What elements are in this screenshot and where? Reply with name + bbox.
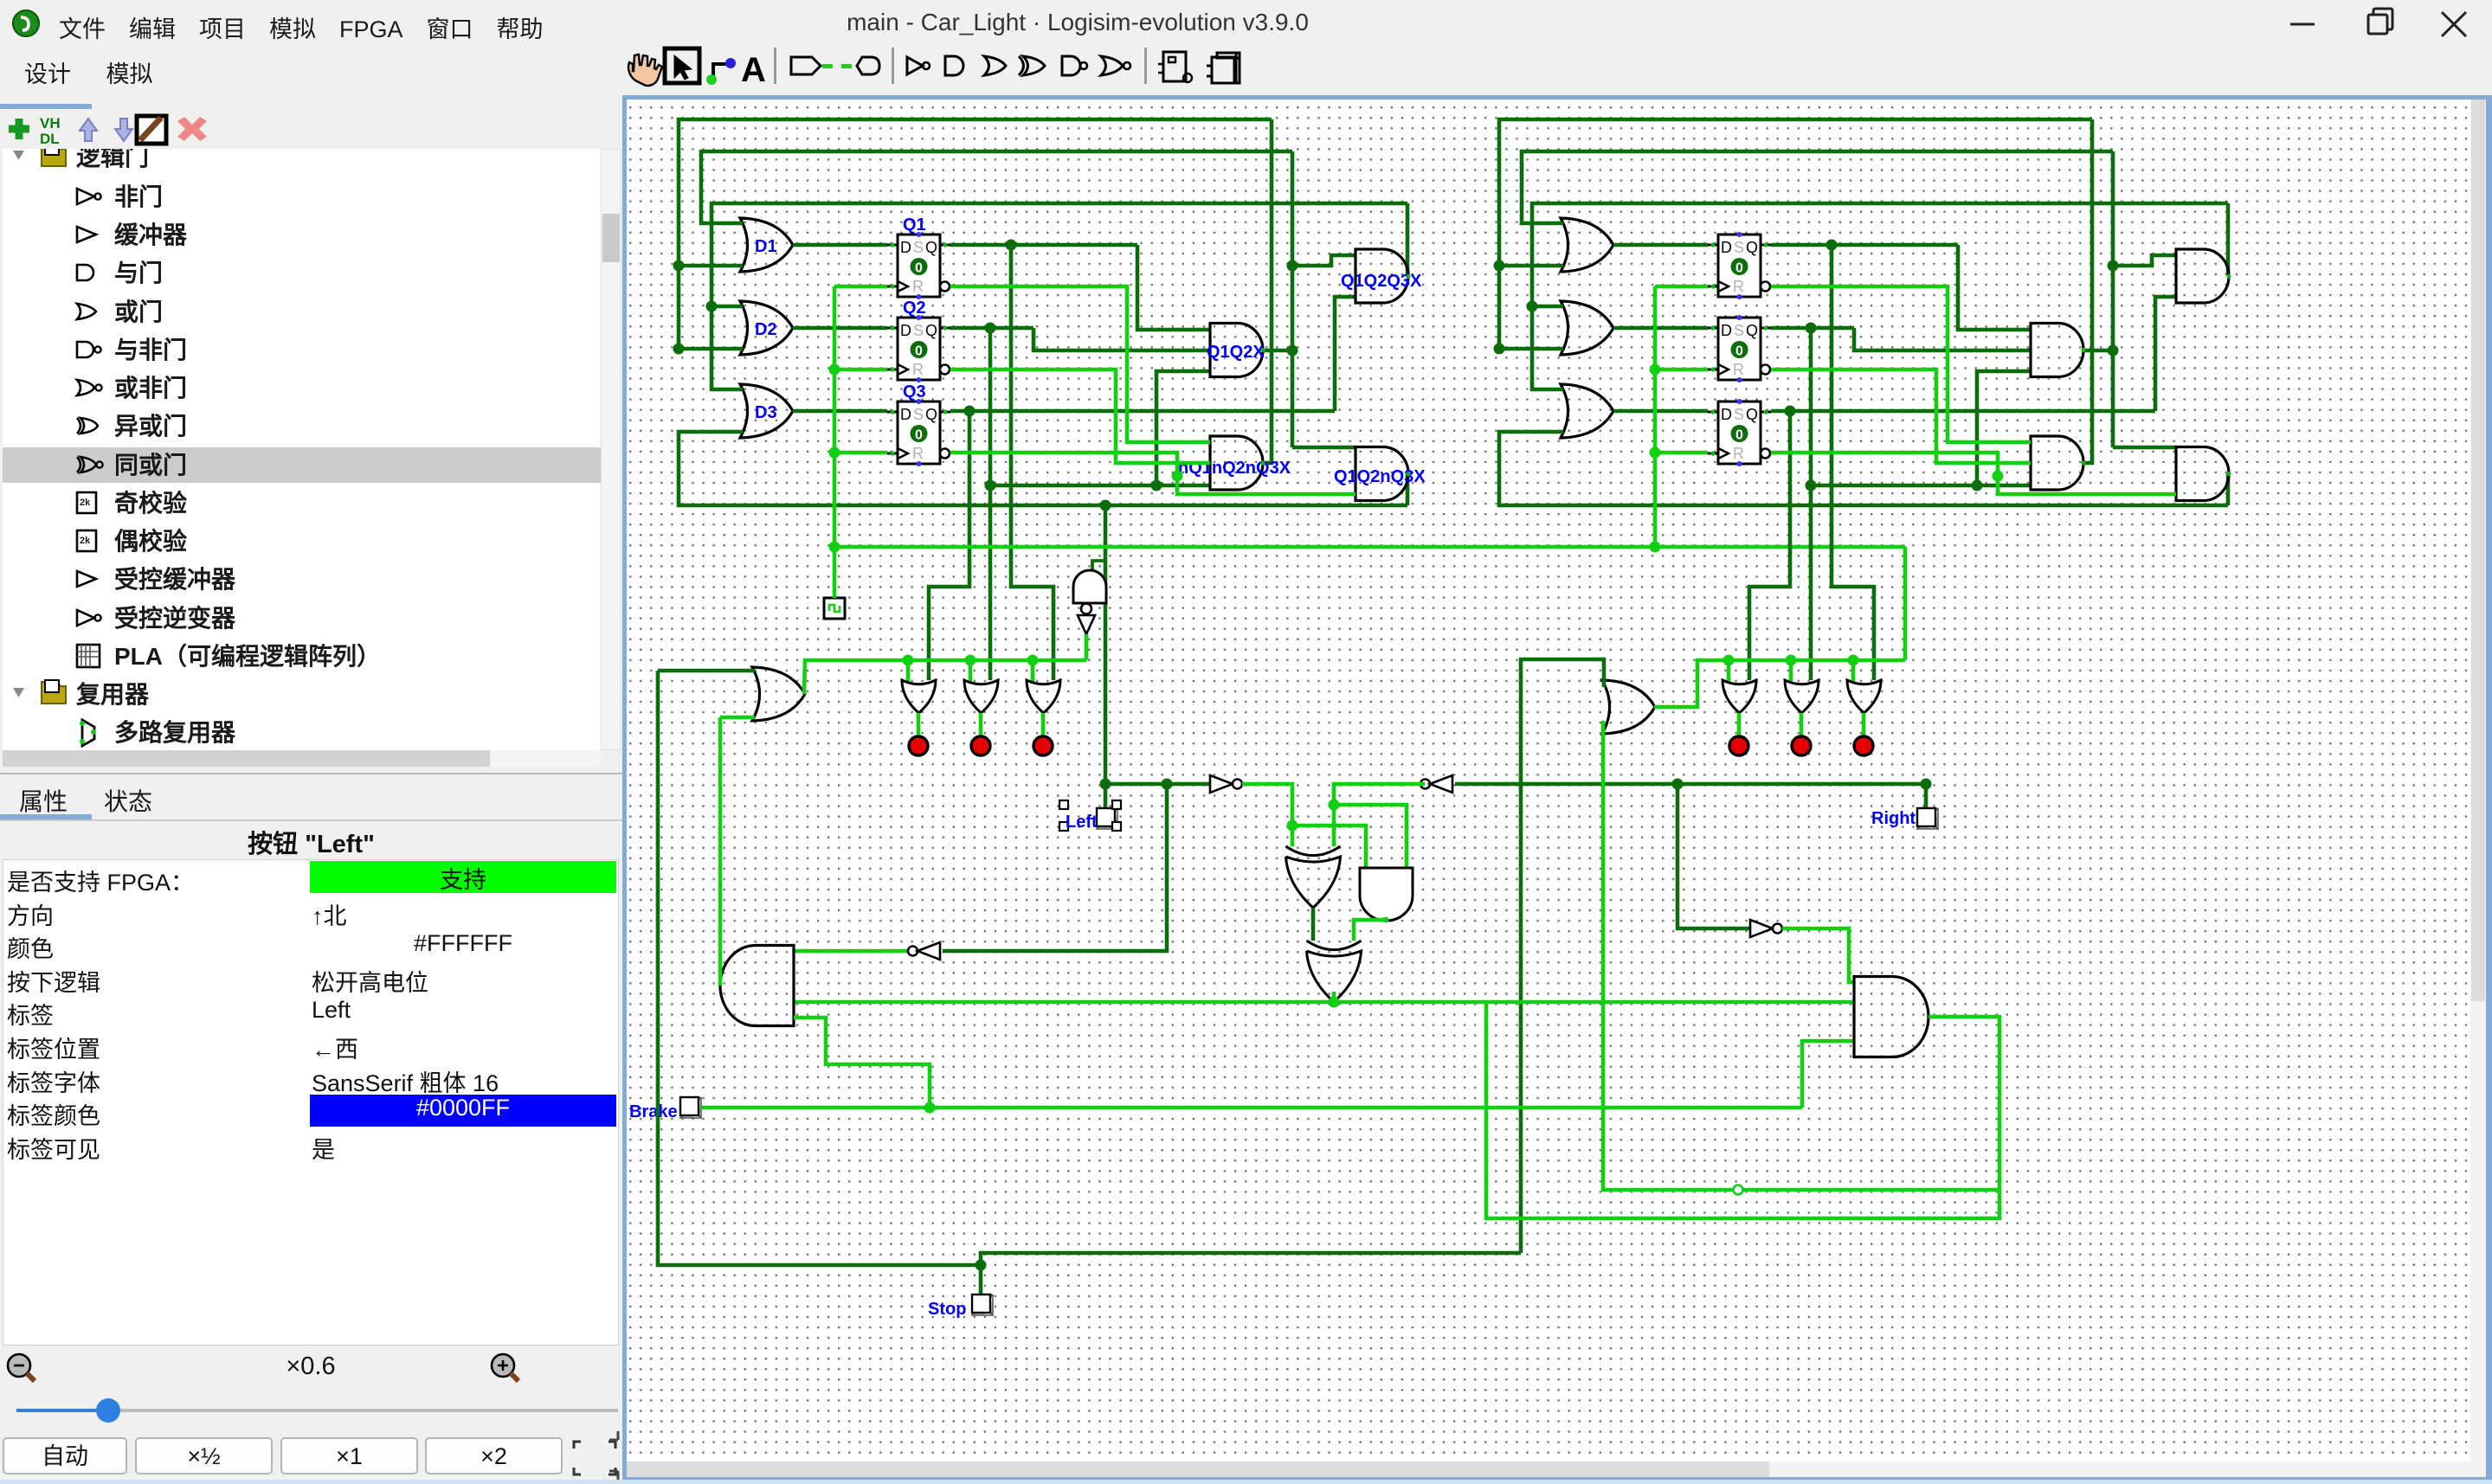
wire Brake to ANDR [1802,1041,1854,1108]
svg-text:Q1Q2X: Q1Q2X [1207,343,1265,362]
node net138 D2 tap [673,344,685,355]
wire clk Q1 [834,285,887,289]
inverter NOT2 [1420,780,1430,789]
wire G4 out down [1406,473,1410,505]
sep [774,48,776,84]
svg-text:2k: 2k [80,498,91,508]
wire NOT4 input [943,786,1167,951]
canvas scrollbars [2470,100,2486,1462]
appearance icon [1207,53,1240,83]
down AND gate [1360,868,1413,921]
wire R2 row to gates [1811,484,2031,488]
wire R2.Q out [1771,326,1854,331]
wire RightNOT feed [1677,784,1750,928]
wire nR3 [1771,453,2176,494]
svg-text:VH: VH [40,115,61,132]
node nQ3 junction [1172,471,1183,482]
title bar [0,0,2492,45]
LED or gate L2 [964,680,998,713]
sep [1144,48,1147,84]
node Left junction2 [1162,779,1173,790]
node R1 out junction [1826,240,1838,251]
svg-text:Q1Q2nQ3X: Q1Q2nQ3X [1334,467,1426,486]
wire NOT1 out [1242,784,1292,826]
node clk q2 [829,364,840,376]
wire nR1 [1771,286,2031,442]
wire R1 to G2R.in1 [1958,245,2031,330]
svg-text:D: D [900,239,911,256]
svg-text:Q: Q [925,406,937,423]
subcircuit icon [1163,52,1186,81]
wire R1 down to LED [1832,245,1874,680]
svg-text:S: S [1734,239,1744,256]
svg-text:Q: Q [1746,239,1758,256]
node net138 D1 tap [673,260,685,272]
wire ledR stub3 [1862,713,1866,737]
wire R1.Q out [1771,243,1958,247]
wire brakeAND in3 jog [794,1018,930,1108]
svg-text:S: S [913,239,924,256]
wire to G2R.in2 [1977,371,2031,485]
LED or gate L3 [1027,680,1060,713]
wire Q2.Q out [950,326,1034,331]
node shield2 jn [1329,997,1340,1008]
node net235R D2 tap [1527,301,1538,312]
node R3 out junction [1785,406,1796,417]
node rail3 [1027,655,1039,666]
wire G3 out up [1262,119,1272,463]
wire NOT2 out [1334,784,1425,805]
clock source [824,598,845,619]
tree h scrollbar [3,750,601,767]
wire jog to G1R.in1 [2113,255,2176,266]
svg-text:S: S [1734,406,1744,423]
wire feedback net235R [1532,203,2228,389]
wire G2 out net [1291,151,1295,447]
wire jog to G1.in1 [1292,255,1355,266]
wire railR stub3 [1851,660,1856,682]
node clk q3 [829,447,840,459]
property table [3,859,619,1346]
svg-text:Q: Q [1746,406,1758,423]
node net584 tap [1100,500,1111,511]
svg-text:×0.6: ×0.6 [286,1352,335,1380]
node clkR r2 [1650,364,1661,376]
wire R3 to G1R.in2 [2155,297,2176,411]
svg-text:偶校验: 偶校验 [114,527,187,555]
wire Q2 down to LED2 [988,328,993,680]
flip-flop Q2 [898,318,940,380]
LED or gate L1 [902,680,936,713]
svg-text:0: 0 [1735,344,1743,359]
wire stop net left [658,671,981,1265]
node Q2 out junction [985,323,996,334]
svg-text:同或门: 同或门 [114,452,187,479]
wire ledR stub2 [1800,713,1804,737]
wire led stub2 [979,713,983,737]
svg-text:Stop: Stop [928,1300,966,1319]
wire D3R to R3.D [1613,409,1708,414]
node net138R D1 tap [1494,260,1505,272]
OR L body [752,667,805,721]
flip-flop Q3 [898,402,940,464]
wire clk Q2 [834,368,887,372]
node G1 in tap [1287,260,1298,272]
input pin [791,57,821,74]
svg-text:A: A [741,51,766,88]
wire Q1 to G2.in1 [1137,245,1210,330]
node stop junction [976,1260,987,1271]
G4R body [2176,447,2229,501]
wire brakeAND out up [718,717,723,986]
wire Q2 row to gates [990,484,1210,488]
wire Q3 to G1.in2 [1335,297,1355,411]
OR R body [1602,680,1655,734]
wire net138 to D2.in2 [679,347,743,351]
flip-flop R1 [1718,234,1761,297]
svg-text:Q2: Q2 [903,299,926,318]
pin dots on gate tips [1406,274,1410,279]
svg-text:PLA（可编程逻辑阵列）: PLA（可编程逻辑阵列） [114,642,381,670]
svg-text:2k: 2k [80,536,91,546]
wire nQ2 [950,369,1210,463]
wire Q1 down to LED3 [1011,245,1053,680]
inverter NOT4 [908,947,918,956]
node mid2 [1329,800,1340,811]
window buttons [2268,0,2492,48]
svg-text:0: 0 [915,344,923,359]
wire Right button stub [1924,784,1929,807]
G1 body [1355,249,1408,303]
wire rail stub1 [906,660,911,682]
wire railR stub1 [1727,660,1731,682]
svg-text:D2: D2 [755,320,777,339]
wire stop to ORL.in1 [658,669,755,673]
svg-text:R: R [912,361,924,378]
tree [3,149,601,750]
explorer toolbar [0,109,622,149]
wire D2R to R2.D [1613,326,1708,331]
tree v scrollbar [601,149,621,750]
XOR [1023,56,1045,75]
svg-text:D: D [1721,406,1732,423]
wire to G4R.in1 [2113,446,2176,450]
svg-text:D: D [1721,322,1732,339]
node rail2 [965,655,976,666]
svg-text:Q1: Q1 [903,215,926,234]
svg-text:Right: Right [1871,809,1916,828]
wire feedback net175R [1522,151,2113,223]
wire led stub1 [917,713,921,737]
LED R2 [1792,736,1811,755]
sep [892,48,894,84]
wire brakeAND in1 [794,949,908,954]
svg-text:0: 0 [1735,261,1743,276]
svg-text:多路复用器: 多路复用器 [114,719,236,746]
wire net138R to D2R.in2 [1499,347,1563,351]
flip-flop Q1 [898,234,940,297]
LED or gate R1 [1723,680,1756,713]
wire Stop button stub [979,1265,983,1294]
wire shield1 out [1311,908,1316,941]
wire G3R out up [2083,119,2092,463]
G2R body [2031,324,2083,377]
wire clkR R2 [1655,368,1708,372]
node Q2 row junction [1151,480,1162,491]
node mid1 [1287,820,1298,832]
wire Right row [1455,782,1926,787]
button Right [1917,808,1938,829]
wire feedback net138R [1499,119,2092,349]
AND [945,56,963,75]
wire mid2 to downAND [1334,805,1407,868]
node R2 row junction [1972,480,1983,491]
node Q3 out junction [964,406,976,417]
wire ORR.in2 net [1603,721,1999,1190]
wire Left button stub [1104,784,1108,807]
XOR shield2 [1307,951,1362,1002]
or D1 body [740,218,793,272]
brake AND left [720,946,794,1026]
node G2 out junction [1287,345,1298,357]
selection handles Left button [1059,800,1068,809]
node clk right [1650,542,1661,553]
wire shield2 out [1332,992,1336,1002]
node Left junction [1100,779,1111,790]
svg-text:Q: Q [1746,322,1758,339]
wire NOT3 out [1782,928,1854,982]
node railR1 [1723,655,1735,666]
wire G2R out stub [2083,349,2113,353]
node Right jn2 [1921,779,1932,790]
wire rail drop [1903,547,1908,660]
toolbar row [0,45,2492,95]
long enable line [794,1000,1854,1005]
svg-text:D1: D1 [755,237,777,256]
wire nR2 [1771,369,2031,463]
svg-text:受控缓冲器: 受控缓冲器 [114,566,236,593]
node rail1 [903,655,914,666]
or D3R [1561,384,1613,438]
wire G2 out stub [1263,349,1292,353]
node R2 out junction [1806,323,1817,334]
wire feedback net235 [712,203,1407,389]
node R2 tap [1806,480,1817,491]
wire Q2 jog [1034,328,1210,350]
wire Left row [1105,782,1210,787]
wire net138R to D1R.in2 [1499,264,1563,268]
wire feedback net138 [679,119,1272,349]
button Left [1097,808,1117,829]
zoom controls [0,1346,622,1390]
LED L1 [909,736,928,755]
LED L3 [1034,736,1053,755]
LED or gate R2 [1785,680,1819,713]
node G2R out junction [2108,345,2119,357]
svg-text:DL: DL [40,131,60,147]
wire Q1.Q out [950,243,1137,247]
svg-text:R: R [912,278,924,295]
node nR3 junction [1993,471,2004,482]
svg-text:异或门: 异或门 [114,413,187,440]
NOR [1101,56,1123,75]
button Brake [680,1097,701,1118]
wire ledR stub1 [1737,713,1742,737]
svg-text:Q: Q [925,239,937,256]
or D2 body [740,301,793,355]
svg-text:R: R [1733,445,1744,462]
wire NOT to rail [1085,634,1089,660]
wire G4R out down [2226,473,2231,505]
wire ORL.in2 [720,716,755,720]
wire to G2.in2 [1156,371,1210,485]
G3 body [1210,436,1263,490]
wire R2 down to LED [1809,328,1813,680]
wire net138 to D1.in2 [679,264,743,268]
svg-text:0: 0 [915,261,923,276]
LED L2 [971,736,990,755]
svg-text:与非门: 与非门 [114,337,187,363]
wire to NAND column [1104,505,1108,784]
NAND [1062,56,1080,75]
wire clock rail vertical [833,286,837,598]
svg-text:S: S [913,322,924,339]
NOT [907,57,923,74]
node Right jn [1672,779,1684,790]
G1R body [2176,249,2229,303]
node clk rail [829,542,840,553]
resize grip marks [606,1428,623,1484]
wire ANDR out loop [1486,1002,1999,1218]
node Q1 out junction [1006,240,1017,251]
svg-text:Left: Left [1066,813,1098,832]
wire G2R out net [2111,151,2115,447]
wire clkR R1 [1655,285,1708,289]
svg-text:非门: 非门 [114,183,163,210]
wire Q3 down to LED1 [929,411,969,680]
wire railR stub2 [1789,660,1793,682]
logisim logo [12,10,40,37]
svg-text:R: R [1733,361,1744,378]
wire D2 to Q2.D [793,326,887,331]
button Stop [972,1294,993,1315]
wire clock rail y632 [834,545,1905,549]
node Q2 tap [985,480,996,491]
wire ORL out to LED rail [804,660,1086,694]
node Brake jn [924,1102,936,1114]
pin circle [1734,1185,1743,1195]
wire to G4.in1 [1292,446,1355,450]
wire rail stub3 [1031,660,1035,682]
svg-text:逻辑门: 逻辑门 [76,149,149,170]
wire net235 to D2.in1 [712,305,743,309]
G3R body [2031,436,2083,490]
wire nQ1 [950,286,1210,442]
LED R3 [1854,736,1873,755]
LED R1 [1729,736,1748,755]
OR [984,56,1006,75]
svg-text:Q1Q2Q3X: Q1Q2Q3X [1341,272,1422,291]
svg-text:S: S [1734,322,1744,339]
wire stop to ORR.in1 [1521,659,1604,1253]
node railR3 [1848,655,1859,666]
wire mid to downAND [1292,826,1366,868]
svg-text:D: D [900,322,911,339]
svg-text:Brake: Brake [629,1102,678,1121]
wire ORR out to rail [1654,660,1905,707]
wire D3 to Q3.D [793,409,887,414]
wire NAND jog [1092,561,1105,572]
svg-text:或门: 或门 [114,299,163,325]
svg-text:0: 0 [1735,428,1743,443]
wire tool [713,64,729,80]
wire R2 jog [1854,328,2031,350]
bottom window strip [622,1477,2492,1484]
wire D1R to R1.D [1613,243,1708,247]
wire feedback net175 [701,151,1292,223]
NAND blink gate [1073,570,1106,603]
wire clk Q3 [834,451,887,455]
svg-text:Q3: Q3 [903,382,926,402]
svg-text:复用器: 复用器 [76,681,150,708]
svg-text:受控逆变器: 受控逆变器 [114,604,236,632]
wire feedback net584 [679,432,1407,505]
wire R3.Q out [1771,409,2155,414]
wire nQ3 [950,453,1355,494]
or D1R [1561,218,1613,272]
wire downAND out [1354,920,1386,941]
wire mid to shield1 [1291,826,1295,846]
node net138R D2 tap [1494,344,1505,355]
wire feedback net584R [1499,432,2228,505]
flip-flop R3 [1718,402,1761,464]
wire Q3.Q out [950,409,1335,414]
svg-text:0: 0 [915,428,923,443]
svg-text:R: R [912,445,924,462]
hand tool [628,55,662,86]
node clkR r3 [1650,447,1661,459]
node net235 D2 tap [706,301,718,312]
svg-text:D: D [1721,239,1732,256]
AND gate right brake [1854,977,1929,1057]
wire G1 out up [1406,203,1410,275]
svg-text:S: S [913,406,924,423]
wire rail stub2 [969,660,973,682]
svg-text:Q: Q [925,322,937,339]
or D2R [1561,301,1613,355]
inverter NOT1 [1210,775,1233,793]
wire mid2 to shield1 [1332,805,1336,846]
svg-text:R: R [1733,278,1744,295]
LED or gate R3 [1847,680,1881,713]
wire Brake line [701,1106,1802,1110]
wire led stub3 [1041,713,1046,737]
wire net235R to D2R.in1 [1532,305,1563,309]
NOT under NAND [1078,615,1095,634]
select arrow (active) [665,48,699,83]
wire stop jog right [981,1253,1521,1265]
output pin [841,64,852,68]
svg-text:与门: 与门 [114,260,163,286]
svg-text:或非门: 或非门 [114,375,187,402]
svg-text:D: D [900,406,911,423]
or D3 body [740,384,793,438]
node G1R in tap [2108,260,2119,272]
wire clkR vertical [1653,286,1658,547]
wire D1 to Q1.D [793,243,887,247]
G4 body [1355,447,1408,501]
wire clkR R3 [1655,451,1708,455]
